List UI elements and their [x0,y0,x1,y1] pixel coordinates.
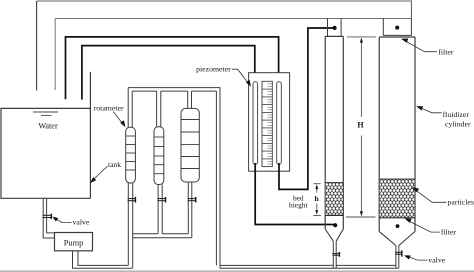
cap/filter at cylinder 2 top [383,19,411,36]
wire: vent line A (right manometer tube to tank) [66,37,279,99]
wire: rotameter R1 top pipe [128,88,132,128]
wire: return band outer downpipe to tank [36,1,38,91]
wire: return band top line [37,0,412,2]
wire: return band inner downpipe to tank [54,19,56,91]
wire: rotameter R3 bottom pipe [188,182,192,238]
wire: rotameter inlet manifold [133,234,192,238]
bottom edge artifact line [0,270,474,272]
valve V3 (rotameter R2) [157,197,165,203]
svg-text:piezometer: piezometer [196,65,231,74]
funnel of cylinder 2 [379,232,415,246]
svg-text:cylinder: cylinder [445,120,471,129]
dimension h line (bed height) [313,184,321,216]
svg-text:Water: Water [38,122,58,131]
rotameter R3 tube [181,108,199,182]
svg-text:H: H [357,120,364,129]
pump P1 [55,233,93,251]
tank [0,72,90,199]
wire: return band bottom line [55,18,411,20]
leader arrow for left valve label [55,218,71,222]
wire: rotameter outlet header [128,88,220,92]
rotameter R1 tube [126,127,136,183]
wire: header outlet downpipe (right side) [216,88,220,269]
svg-text:filter: filter [438,48,454,57]
wire: rotameter R2 top pipe [157,91,161,127]
rotameter R2 tube [154,127,164,185]
wire: bottom supply pipe to fluidizer cylinders [220,265,399,268]
valve V4 (rotameter R3) [188,197,196,203]
svg-text:hieght: hieght [289,201,308,210]
manometer tube left [253,82,258,165]
wire: return band right end [410,0,412,18]
svg-text:tank: tank [108,160,121,169]
wire: cylinder 2 inlet neck [396,246,399,269]
wire: pump outlet pipe along bottom [73,251,133,268]
wire: cylinder 1 inlet neck [333,241,336,268]
leader arrow for bottom filter label [408,221,440,233]
svg-text:rotameter: rotameter [94,103,124,112]
valve V5 (cylinder 1 inlet) [333,252,340,257]
particles bed in cylinder 2 [380,179,415,218]
piezometer box [249,73,290,172]
node: cylinder 2 bottom port [396,224,400,228]
piezometer scale [262,81,272,166]
wire: bottom pressure tap (cylinder bottom to left tube) [255,163,333,225]
valve V2 (rotameter R1) [128,197,136,203]
wire: vent line B (left manometer tube to tank) [82,46,255,100]
fluidizer cylinder 2 walls [379,37,415,232]
node: top tap port [333,26,337,30]
node: cylinder 2 top port [395,26,399,30]
leader arrow for rotameter label [114,112,124,125]
leader arrow for piezometer label [232,69,249,83]
valve V6 (cylinder 2 inlet) [395,250,402,256]
leader arrow for particles label [416,190,447,202]
svg-text:valve: valve [73,218,90,227]
funnel of cylinder 1 [325,229,343,241]
particles bed in cylinder 1 [326,182,343,215]
wire: tank outlet pipe to pump [43,198,54,238]
cap/filter at cylinder 1 top [328,19,342,37]
water surface marks [33,112,58,115]
svg-text:Pump: Pump [64,238,84,247]
leader arrow for right valve label [408,257,428,261]
wire: top pressure tap (cylinder top to right tube) [279,28,333,189]
leader arrow for top filter label [405,41,438,52]
wire: rotameter R1 feed pipe (vertical through-pipe) [128,183,132,268]
leader arrow for tank label [92,166,108,181]
svg-text:filter: filter [441,228,457,237]
svg-text:fluidizer: fluidizer [443,110,470,119]
fluidizer cylinder 1 walls [325,36,343,229]
svg-text:particles: particles [448,198,474,207]
valve V1 (tank outlet) [43,214,52,219]
svg-text:valve: valve [428,256,445,265]
manometer tube right [277,82,282,165]
piezometer scale minor ticks [268,84,273,164]
wire: rotameter R2 bottom pipe [158,185,162,234]
dimension H line [346,37,376,217]
node: bottom tap port [333,223,337,227]
wire: rotameter R3 top pipe [188,91,192,109]
leader arrow for fluidizer cylinder label [420,108,442,113]
